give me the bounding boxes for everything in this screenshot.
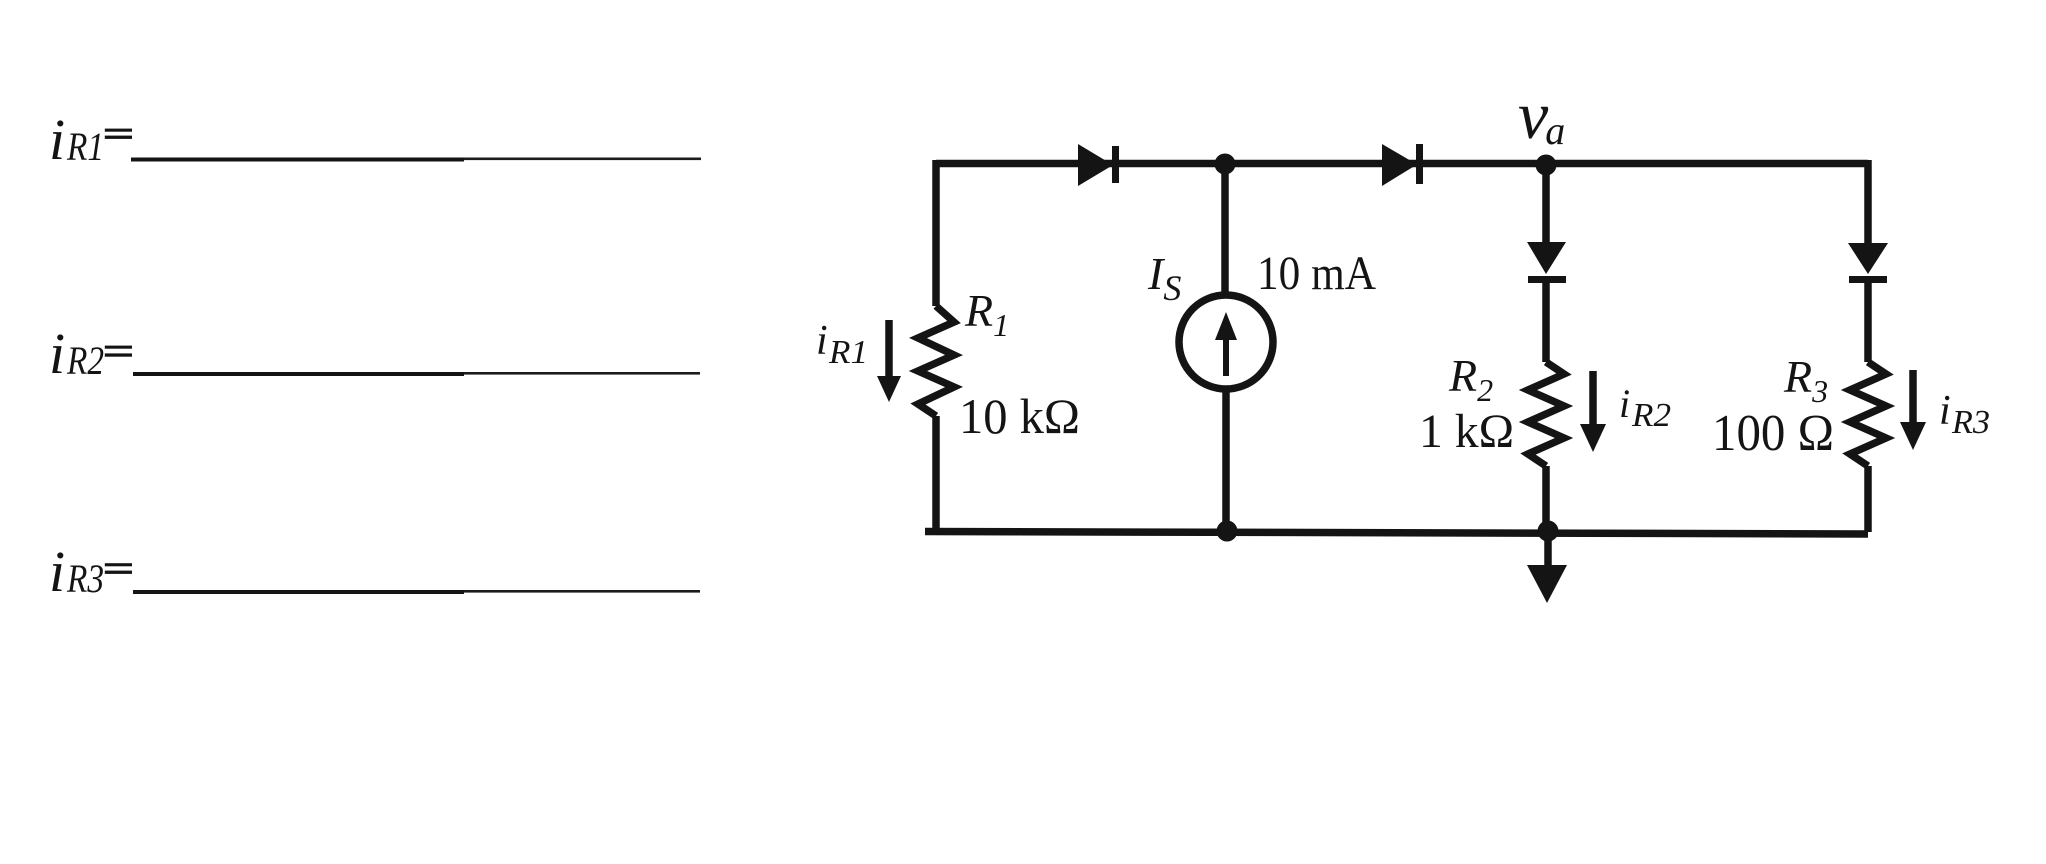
resistor R2: [1528, 362, 1564, 466]
svg-text:100 Ω: 100 Ω: [1712, 405, 1834, 462]
wire right branch middle: [1864, 283, 1872, 362]
diode D3 (R2 branch): [1527, 242, 1566, 283]
value 100 Ohm: [1712, 405, 1834, 462]
wire source branch upper: [1221, 164, 1229, 295]
svg-text:R2: R2: [1448, 350, 1493, 408]
wire right branch lower: [1864, 466, 1872, 532]
diode D4 (R3 branch): [1848, 243, 1888, 283]
wire R2 branch middle: [1542, 283, 1550, 362]
current source arrow: [1215, 312, 1237, 376]
value 10 mA: [1257, 247, 1376, 300]
wire left branch lower: [932, 416, 940, 532]
wire bottom: [925, 532, 1868, 535]
svg-text:R2: R2: [66, 338, 104, 383]
label IS: [1147, 248, 1181, 308]
current arrow iR3: [1900, 370, 1926, 450]
svg-text:10 mA: 10 mA: [1257, 247, 1376, 300]
svg-text:R1: R1: [66, 124, 104, 169]
value 10 kOhm: [959, 388, 1080, 444]
node A junction dot: [1215, 154, 1236, 175]
label R2: [1448, 350, 1493, 408]
diode D2 (top wire right): [1382, 144, 1423, 186]
wire top: [936, 160, 1868, 168]
node va junction dot: [1536, 155, 1557, 176]
wire source branch lower: [1222, 389, 1230, 532]
label iR2=: [49, 321, 132, 386]
svg-text:i: i: [49, 107, 65, 172]
svg-text:1 kΩ: 1 kΩ: [1419, 405, 1514, 458]
svg-text:R3: R3: [1783, 351, 1828, 409]
label R3: [1783, 351, 1828, 409]
label va: [1518, 77, 1565, 153]
svg-text:R1: R1: [828, 334, 868, 371]
wire left branch upper: [932, 160, 940, 306]
svg-text:10 kΩ: 10 kΩ: [959, 388, 1080, 444]
answer line 2: [133, 372, 700, 376]
value 1 kOhm: [1419, 405, 1514, 458]
svg-text:R2: R2: [1631, 397, 1671, 434]
label iR1: [816, 318, 868, 371]
answer line 1: [131, 158, 701, 162]
svg-text:R3: R3: [66, 556, 104, 601]
junction dot bottom source: [1217, 521, 1238, 542]
svg-text:R1: R1: [964, 285, 1009, 343]
wire R2 branch upper: [1542, 165, 1550, 242]
svg-text:i: i: [1619, 381, 1630, 426]
resistor R3: [1850, 362, 1886, 466]
ground: [1527, 532, 1567, 603]
label iR2: [1619, 381, 1671, 434]
svg-text:IS: IS: [1147, 248, 1181, 308]
label iR3: [1939, 388, 1990, 441]
label R1: [964, 285, 1009, 343]
diode D1 (top wire left): [1078, 144, 1119, 186]
label iR1=: [49, 107, 132, 172]
label iR3=: [49, 539, 132, 604]
svg-text:i: i: [1939, 388, 1951, 434]
svg-text:i: i: [49, 539, 65, 604]
svg-text:i: i: [816, 318, 828, 364]
svg-text:i: i: [49, 321, 65, 386]
wire right branch upper: [1864, 160, 1872, 243]
current source IS circle: [1179, 295, 1273, 389]
wire R2 branch lower: [1542, 466, 1550, 532]
svg-text:R3: R3: [1951, 404, 1990, 441]
current arrow iR1: [877, 320, 901, 402]
current arrow iR2: [1580, 371, 1606, 452]
resistor R1: [918, 306, 954, 416]
svg-text:va: va: [1518, 77, 1565, 153]
junction dot bottom R2: [1538, 521, 1559, 542]
answer line 3: [133, 590, 700, 594]
